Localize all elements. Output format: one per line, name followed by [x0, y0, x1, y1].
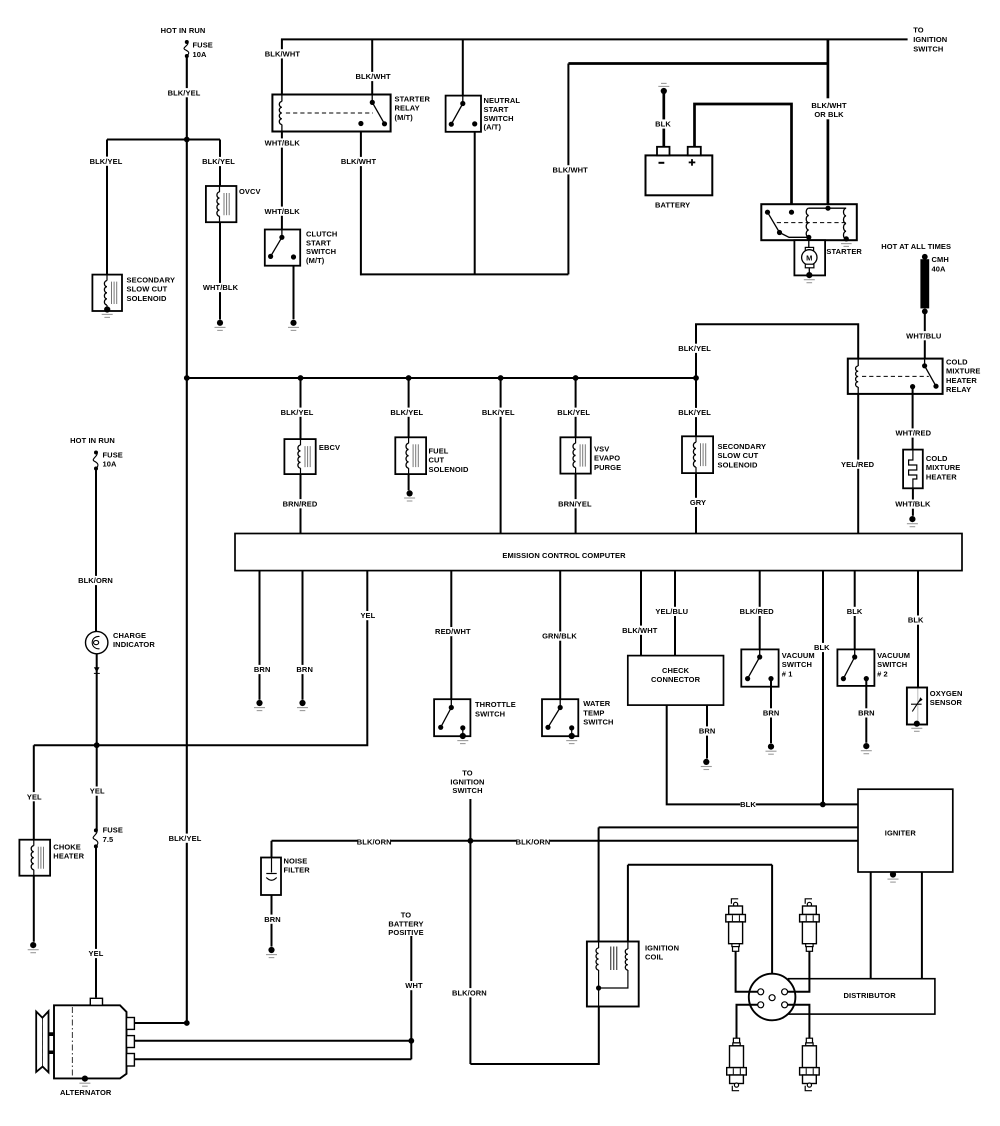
svg-text:YEL/BLU: YEL/BLU	[655, 607, 688, 616]
wire igniter feed line	[599, 826, 858, 828]
starter solenoid and motor	[761, 204, 857, 246]
svg-text:WHT/BLK: WHT/BLK	[265, 139, 301, 148]
label BLK/YEL left branch	[89, 157, 123, 166]
label BLK long	[814, 643, 830, 652]
svg-text:YEL: YEL	[360, 611, 375, 620]
junction bus at slow cut solenoid	[693, 375, 699, 381]
emission control computer box	[235, 534, 962, 571]
label BLK/YEL sscs	[678, 408, 712, 417]
wire plug wire 1	[736, 951, 758, 992]
ground alternator ground	[79, 1076, 90, 1087]
wire ECC BRN ground 1	[259, 571, 261, 700]
wire noise filter feed	[271, 841, 273, 858]
label BRN ecc2	[296, 665, 313, 674]
distributor box	[789, 979, 935, 1014]
svg-text:BLK/YEL: BLK/YEL	[482, 408, 515, 417]
wire ECC BLK/RED to vacuum switch 1	[759, 571, 761, 657]
wire slow cut solenoid 2 feed	[695, 378, 697, 436]
svg-text:OR BLK: OR BLK	[814, 110, 844, 119]
label BLK/ORN h2	[516, 837, 551, 846]
wire WHT/BLU to CMH relay	[924, 311, 926, 365]
wire battery negative BLK	[662, 91, 665, 147]
svg-text:BLK/YEL: BLK/YEL	[678, 408, 711, 417]
ground BRN ground 2	[297, 700, 308, 711]
wire coil negative to ignition wire	[470, 1007, 598, 1065]
junction main line / branch	[184, 137, 190, 143]
svg-text:WHT/BLU: WHT/BLU	[906, 331, 941, 340]
wire OVCV to ground	[219, 222, 221, 319]
svg-text:DISTRIBUTOR: DISTRIBUTOR	[844, 991, 897, 1000]
ground clutch start switch ground	[288, 320, 299, 331]
label BLK/YEL fcs	[390, 408, 424, 417]
wire heater to ground WHT/BLK	[912, 488, 914, 516]
junction bus at VSV	[573, 375, 579, 381]
label WHT/BLK relay out	[265, 138, 301, 147]
label YEL/BLU	[655, 607, 689, 616]
wire alternator mid output	[134, 1040, 411, 1042]
wire neutral start switch output	[474, 124, 476, 275]
label BLK/RED	[740, 607, 775, 616]
ground battery negative ground	[658, 83, 669, 94]
wire coil secondary to distributor	[628, 864, 772, 866]
wire BLK/ORN to charge indicator	[95, 469, 97, 632]
wire plug wire 4	[788, 1005, 810, 1038]
solenoid fuel cut solenoid	[395, 437, 426, 474]
svg-text:M: M	[806, 253, 812, 262]
fusible link CMH 40A	[920, 254, 929, 314]
ground starter motor ground	[804, 272, 815, 283]
wire starter switch net horizontal	[360, 273, 568, 275]
svg-text:BLK/ORN: BLK/ORN	[78, 576, 113, 585]
spark plug top left	[726, 899, 746, 952]
svg-text:NOISEFILTER: NOISEFILTER	[284, 857, 311, 875]
svg-text:BRN: BRN	[254, 665, 271, 674]
svg-text:HOT IN RUN: HOT IN RUN	[161, 26, 206, 35]
solenoid VSV evapo purge	[560, 437, 590, 473]
svg-text:EMISSION CONTROL COMPUTER: EMISSION CONTROL COMPUTER	[502, 551, 626, 560]
ground cold mixture heater ground	[907, 516, 918, 527]
starter motor M	[794, 240, 825, 275]
junction YEL junction charge indicator	[94, 742, 100, 748]
junction bus at main line	[184, 375, 190, 381]
svg-text:ALTERNATOR: ALTERNATOR	[60, 1088, 112, 1097]
sensor oxygen sensor	[907, 688, 927, 725]
svg-text:BLK/YEL: BLK/YEL	[678, 344, 711, 353]
lamp charge indicator	[86, 631, 108, 653]
heater choke heater	[19, 840, 50, 876]
wire check connector BLK output	[667, 705, 858, 804]
label BRN vs2	[858, 708, 875, 717]
label BLK/ORN h1	[357, 837, 392, 846]
wire fuse branch line	[107, 139, 220, 141]
label BLK/YEL to CMH relay	[678, 344, 712, 353]
wire YEL to fuse 7.5	[96, 745, 98, 830]
label BLK o2	[908, 616, 924, 625]
wire clutch start switch feed WHT/BLK	[281, 132, 283, 230]
label GRN/BLK	[542, 632, 577, 641]
svg-text:OVCV: OVCV	[239, 187, 261, 196]
ground vacuum switch 2 ground	[861, 743, 872, 754]
svg-text:BLK/WHT: BLK/WHT	[811, 101, 847, 110]
wire ECC RED/WHT to throttle switch	[450, 571, 452, 708]
wire vacuum switch 1 BRN ground wire	[770, 679, 772, 744]
svg-text:BLK/WHT: BLK/WHT	[355, 72, 391, 81]
wire ECC YEL output	[34, 571, 368, 746]
svg-text:WHT/BLK: WHT/BLK	[895, 500, 931, 509]
svg-text:STARTER: STARTER	[826, 247, 862, 256]
svg-text:BATTERY: BATTERY	[655, 201, 690, 210]
wire branch to slow cut solenoid	[106, 140, 108, 275]
svg-text:BLK/RED: BLK/RED	[740, 607, 775, 616]
wire alternator top output	[134, 1022, 186, 1024]
svg-text:BLK/YEL: BLK/YEL	[557, 408, 590, 417]
wire fuel cut solenoid ground wire	[408, 474, 410, 490]
wire ignition switch wire down	[469, 799, 471, 1064]
wire ECC BLK/WHT to check connector	[640, 571, 642, 656]
svg-text:BLK/YEL: BLK/YEL	[281, 408, 314, 417]
wire check connector BRN ground wire	[706, 705, 708, 758]
label BLK/ORN coil	[452, 988, 487, 997]
battery	[646, 147, 713, 195]
svg-text:EBCV: EBCV	[319, 443, 340, 452]
junction BLK/ORN junction	[468, 838, 474, 844]
diode arrow charge indicator	[94, 667, 100, 673]
label BLK/WHT relay output	[341, 157, 377, 166]
wire alternator lower output	[134, 1058, 411, 1060]
wire slow cut solenoid 2 to ECC GRY	[695, 473, 697, 533]
svg-text:BLK/ORN: BLK/ORN	[516, 837, 551, 846]
ground igniter ground	[888, 871, 899, 882]
svg-text:BLK: BLK	[814, 643, 830, 652]
ground oxygen sensor ground	[911, 721, 922, 732]
svg-text:BRN/YEL: BRN/YEL	[558, 499, 592, 508]
wire noise filter BRN ground wire	[271, 895, 273, 947]
label WHT/BLK clutch sw	[265, 207, 301, 216]
wire branch to OVCV	[219, 140, 221, 187]
svg-text:GRY: GRY	[690, 498, 706, 507]
ground noise filter ground	[266, 947, 277, 958]
ground choke heater ground	[28, 942, 39, 953]
wire ignition feed drop BLK/WHT OR BLK	[827, 39, 830, 208]
wire ECC BLK to vacuum switch 2	[854, 571, 856, 657]
label BRN vs1	[763, 708, 780, 717]
solenoid EBCV	[284, 439, 315, 474]
solenoid secondary slow cut (left)	[92, 275, 122, 311]
wire igniter to distributor 1	[870, 872, 872, 979]
label BLK/YEL vsv	[557, 408, 591, 417]
switch neutral start switch (A/T)	[446, 96, 481, 132]
svg-text:BLK: BLK	[655, 120, 671, 129]
label YEL/RED	[841, 460, 875, 469]
ground secondary slow cut solenoid	[102, 306, 113, 317]
svg-text:BRN: BRN	[699, 727, 716, 736]
junction bus at EBCV	[298, 375, 304, 381]
label WHT/BLU	[906, 331, 941, 340]
wire WHT down leg	[410, 1041, 412, 1060]
wire ECC GRN/BLK to water temp switch	[559, 571, 561, 708]
svg-text:BLK/YEL: BLK/YEL	[202, 157, 235, 166]
label BLK/YEL ovcv branch	[202, 157, 236, 166]
label BLK/WHT OR BLK	[809, 98, 847, 119]
svg-text:OXYGENSENSOR: OXYGENSENSOR	[930, 689, 963, 707]
label BLK/YEL main top	[167, 88, 201, 97]
svg-text:BLK: BLK	[847, 607, 863, 616]
wire VSV feed	[575, 378, 577, 437]
label BLK battery	[655, 119, 671, 128]
wire cold mixture heater relay coil to ECC YEL/RED	[857, 387, 859, 534]
switch water temp switch	[542, 699, 578, 736]
junction BLK junction at igniter net	[820, 802, 826, 808]
svg-text:WHT: WHT	[405, 981, 423, 990]
label WHT	[405, 981, 423, 990]
label BLK/YEL lower	[168, 834, 202, 843]
svg-text:RED/WHT: RED/WHT	[435, 627, 471, 636]
svg-text:BLK/YEL: BLK/YEL	[169, 834, 202, 843]
label BLK/YEL ecc	[482, 408, 516, 417]
ground vacuum switch 1 ground	[766, 744, 777, 755]
label BRN/YEL	[558, 499, 592, 508]
junction bus at fuel cut solenoid	[406, 375, 412, 381]
ignition coil	[587, 942, 639, 1007]
svg-text:BLK/YEL: BLK/YEL	[390, 408, 423, 417]
heater cold mixture heater	[903, 450, 923, 489]
spark plug top right	[800, 899, 820, 952]
wire fuel cut solenoid feed	[408, 378, 410, 437]
ground check connector ground	[701, 759, 712, 770]
wire ECC BLK to igniter net	[822, 571, 824, 805]
label BRN/RED	[283, 499, 318, 508]
wire ECC YEL/BLU to check connector	[674, 571, 676, 656]
solenoid OVCV	[206, 186, 237, 222]
distributor cap	[749, 974, 796, 1021]
label YEL choke	[27, 792, 43, 801]
wire YEL fuse to alternator	[95, 846, 97, 997]
label BLK/ORN charge	[78, 576, 113, 585]
svg-text:BLK/WHT: BLK/WHT	[553, 165, 589, 174]
label WHT/BLK heater	[895, 500, 931, 509]
wire WHT wire	[410, 936, 412, 1041]
wire vacuum switch 2 BRN ground wire	[865, 679, 867, 743]
svg-text:IGNITER: IGNITER	[885, 829, 917, 838]
fuse F1 10A	[184, 40, 189, 58]
wire ECC BLK/YEL feed	[500, 378, 502, 534]
label BLK/WHT relay contact	[355, 72, 391, 81]
relay starter relay (M/T)	[272, 95, 390, 132]
junction WHT junction	[408, 1038, 414, 1044]
svg-text:BRN: BRN	[763, 709, 780, 718]
alternator	[49, 998, 135, 1078]
wire starter switch net vertical	[567, 64, 569, 275]
wire igniter to distributor 2	[921, 872, 923, 979]
svg-text:BLK/WHT: BLK/WHT	[341, 157, 377, 166]
wire EBCV to ECC BRN/RED	[300, 474, 302, 533]
switch clutch start switch (M/T)	[265, 230, 300, 266]
label BLK/WHT check	[622, 626, 658, 635]
svg-text:BLK/WHT: BLK/WHT	[622, 626, 658, 635]
svg-text:YEL/RED: YEL/RED	[841, 460, 875, 469]
label YEL fuse75	[89, 787, 105, 796]
ground water temp switch	[566, 728, 577, 744]
wire plug wire 3	[737, 1005, 758, 1038]
label RED/WHT	[435, 627, 471, 636]
svg-text:YEL: YEL	[89, 949, 104, 958]
label YEL alt	[88, 949, 104, 958]
svg-text:YEL: YEL	[90, 787, 105, 796]
ground fuel cut solenoid ground	[404, 490, 415, 501]
svg-text:HOT AT ALL TIMES: HOT AT ALL TIMES	[881, 242, 951, 251]
ground OVCV ground	[215, 320, 226, 331]
svg-text:BLK/WHT: BLK/WHT	[265, 49, 301, 58]
svg-text:BRN: BRN	[296, 665, 313, 674]
label GRY	[690, 498, 706, 507]
wire charge indicator to YEL junction	[96, 654, 98, 745]
wire VSV to ECC BRN/YEL	[575, 474, 577, 534]
wire distributor center drop	[771, 865, 773, 994]
label BLK/YEL ebcv	[280, 408, 314, 417]
svg-text:BLK: BLK	[740, 800, 756, 809]
wire second feed line	[568, 62, 828, 65]
switch throttle switch	[434, 699, 470, 736]
label WHT/BLK ovcv	[203, 283, 239, 292]
svg-text:BLK/YEL: BLK/YEL	[90, 157, 123, 166]
wire BLK/YEL bus	[187, 377, 696, 379]
label BRN check	[699, 726, 716, 735]
ground throttle switch	[457, 728, 468, 744]
svg-text:GRN/BLK: GRN/BLK	[542, 632, 577, 641]
svg-text:BLK/ORN: BLK/ORN	[357, 837, 392, 846]
wire neutral start switch feed	[462, 39, 464, 103]
solenoid secondary slow cut (mid)	[682, 436, 713, 473]
connector check connector	[628, 656, 724, 706]
label BLK/WHT starter net	[553, 165, 589, 174]
label YEL ecc	[360, 611, 376, 620]
wire plug wire 2	[788, 951, 810, 992]
label BRN noise	[264, 915, 281, 924]
svg-text:CHOKEHEATER: CHOKEHEATER	[53, 843, 84, 861]
wire EBCV feed	[300, 378, 302, 439]
switch vacuum switch 1	[741, 649, 778, 686]
svg-text:BLK/ORN: BLK/ORN	[452, 988, 487, 997]
wire starter relay coil feed	[281, 39, 283, 95]
wire bus to cold mixture heater relay	[696, 324, 858, 378]
junction bus at ECC feed	[498, 375, 504, 381]
wire starter relay output BLK/WHT	[360, 124, 362, 276]
wire ECC BLK to oxygen sensor	[917, 571, 919, 688]
wire battery positive to starter	[695, 104, 792, 212]
fuse F2 10A	[93, 451, 98, 471]
wire top feed line BLK/WHT	[281, 38, 908, 40]
igniter box	[858, 789, 953, 872]
fuse F3 7.5A	[93, 828, 98, 848]
label BLK/WHT relay coil	[265, 49, 301, 58]
svg-text:YEL: YEL	[27, 792, 42, 801]
svg-text:WHT/BLK: WHT/BLK	[265, 207, 301, 216]
label WHT/RED	[895, 428, 931, 437]
wire ECC BRN ground 2	[302, 571, 304, 700]
svg-text:BRN: BRN	[858, 709, 875, 718]
switch vacuum switch 2	[837, 649, 874, 686]
junction main line at alternator	[184, 1020, 190, 1026]
label BLK igniter net	[740, 800, 756, 809]
svg-text:BRN: BRN	[264, 915, 281, 924]
wire main BLK/YEL vertical	[186, 56, 188, 1023]
svg-text:BLK/YEL: BLK/YEL	[168, 88, 201, 97]
wire clutch switch output to ground	[293, 257, 295, 319]
wire choke heater ground wire	[33, 876, 35, 942]
wire YEL to choke heater	[33, 745, 35, 840]
spark plug bottom left	[727, 1038, 747, 1091]
svg-text:HOT IN RUN: HOT IN RUN	[70, 436, 115, 445]
svg-text:BLK: BLK	[908, 616, 924, 625]
svg-text:BRN/RED: BRN/RED	[283, 499, 318, 508]
svg-text:WHT/RED: WHT/RED	[895, 429, 931, 438]
wire starter relay contact feed	[371, 39, 373, 102]
spark plug bottom right	[800, 1038, 820, 1091]
wire coil primary drop	[598, 827, 600, 941]
relay cold mixture heater relay	[848, 359, 943, 394]
wire coil secondary feed drop	[627, 865, 629, 942]
wire BLK/ORN horizontal	[272, 840, 859, 842]
wire relay output WHT/RED	[912, 387, 914, 450]
alternator pulley	[36, 1011, 48, 1072]
svg-text:WHT/BLK: WHT/BLK	[203, 283, 239, 292]
label BLK vs2	[847, 607, 863, 616]
ground BRN ground 1	[254, 700, 265, 711]
label BRN ecc1	[254, 665, 271, 674]
